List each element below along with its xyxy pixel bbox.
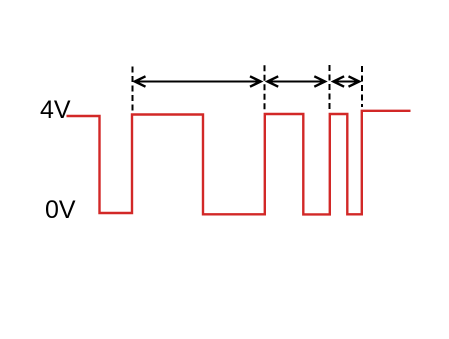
arrow span 2 left head [268, 76, 279, 86]
arrow span 2 shaft [268, 81, 325, 83]
arrow span 1 right head [250, 76, 261, 86]
waveform trace [67, 111, 411, 215]
arrow span 3 left head [333, 76, 344, 86]
dashed line t3 [329, 65, 331, 111]
arrow span 3 shaft [334, 81, 359, 83]
dashed line t4 [361, 66, 363, 107]
svg-text:4V: 4V [40, 96, 71, 124]
svg-text:0V: 0V [45, 196, 76, 224]
dashed line t1 [132, 67, 134, 112]
arrow span 1 shaft [135, 81, 260, 83]
dashed line t2 [264, 65, 266, 110]
arrow span 3 right head [349, 76, 360, 86]
arrow span 2 right head [314, 76, 325, 86]
arrow span 1 left head [135, 76, 146, 86]
